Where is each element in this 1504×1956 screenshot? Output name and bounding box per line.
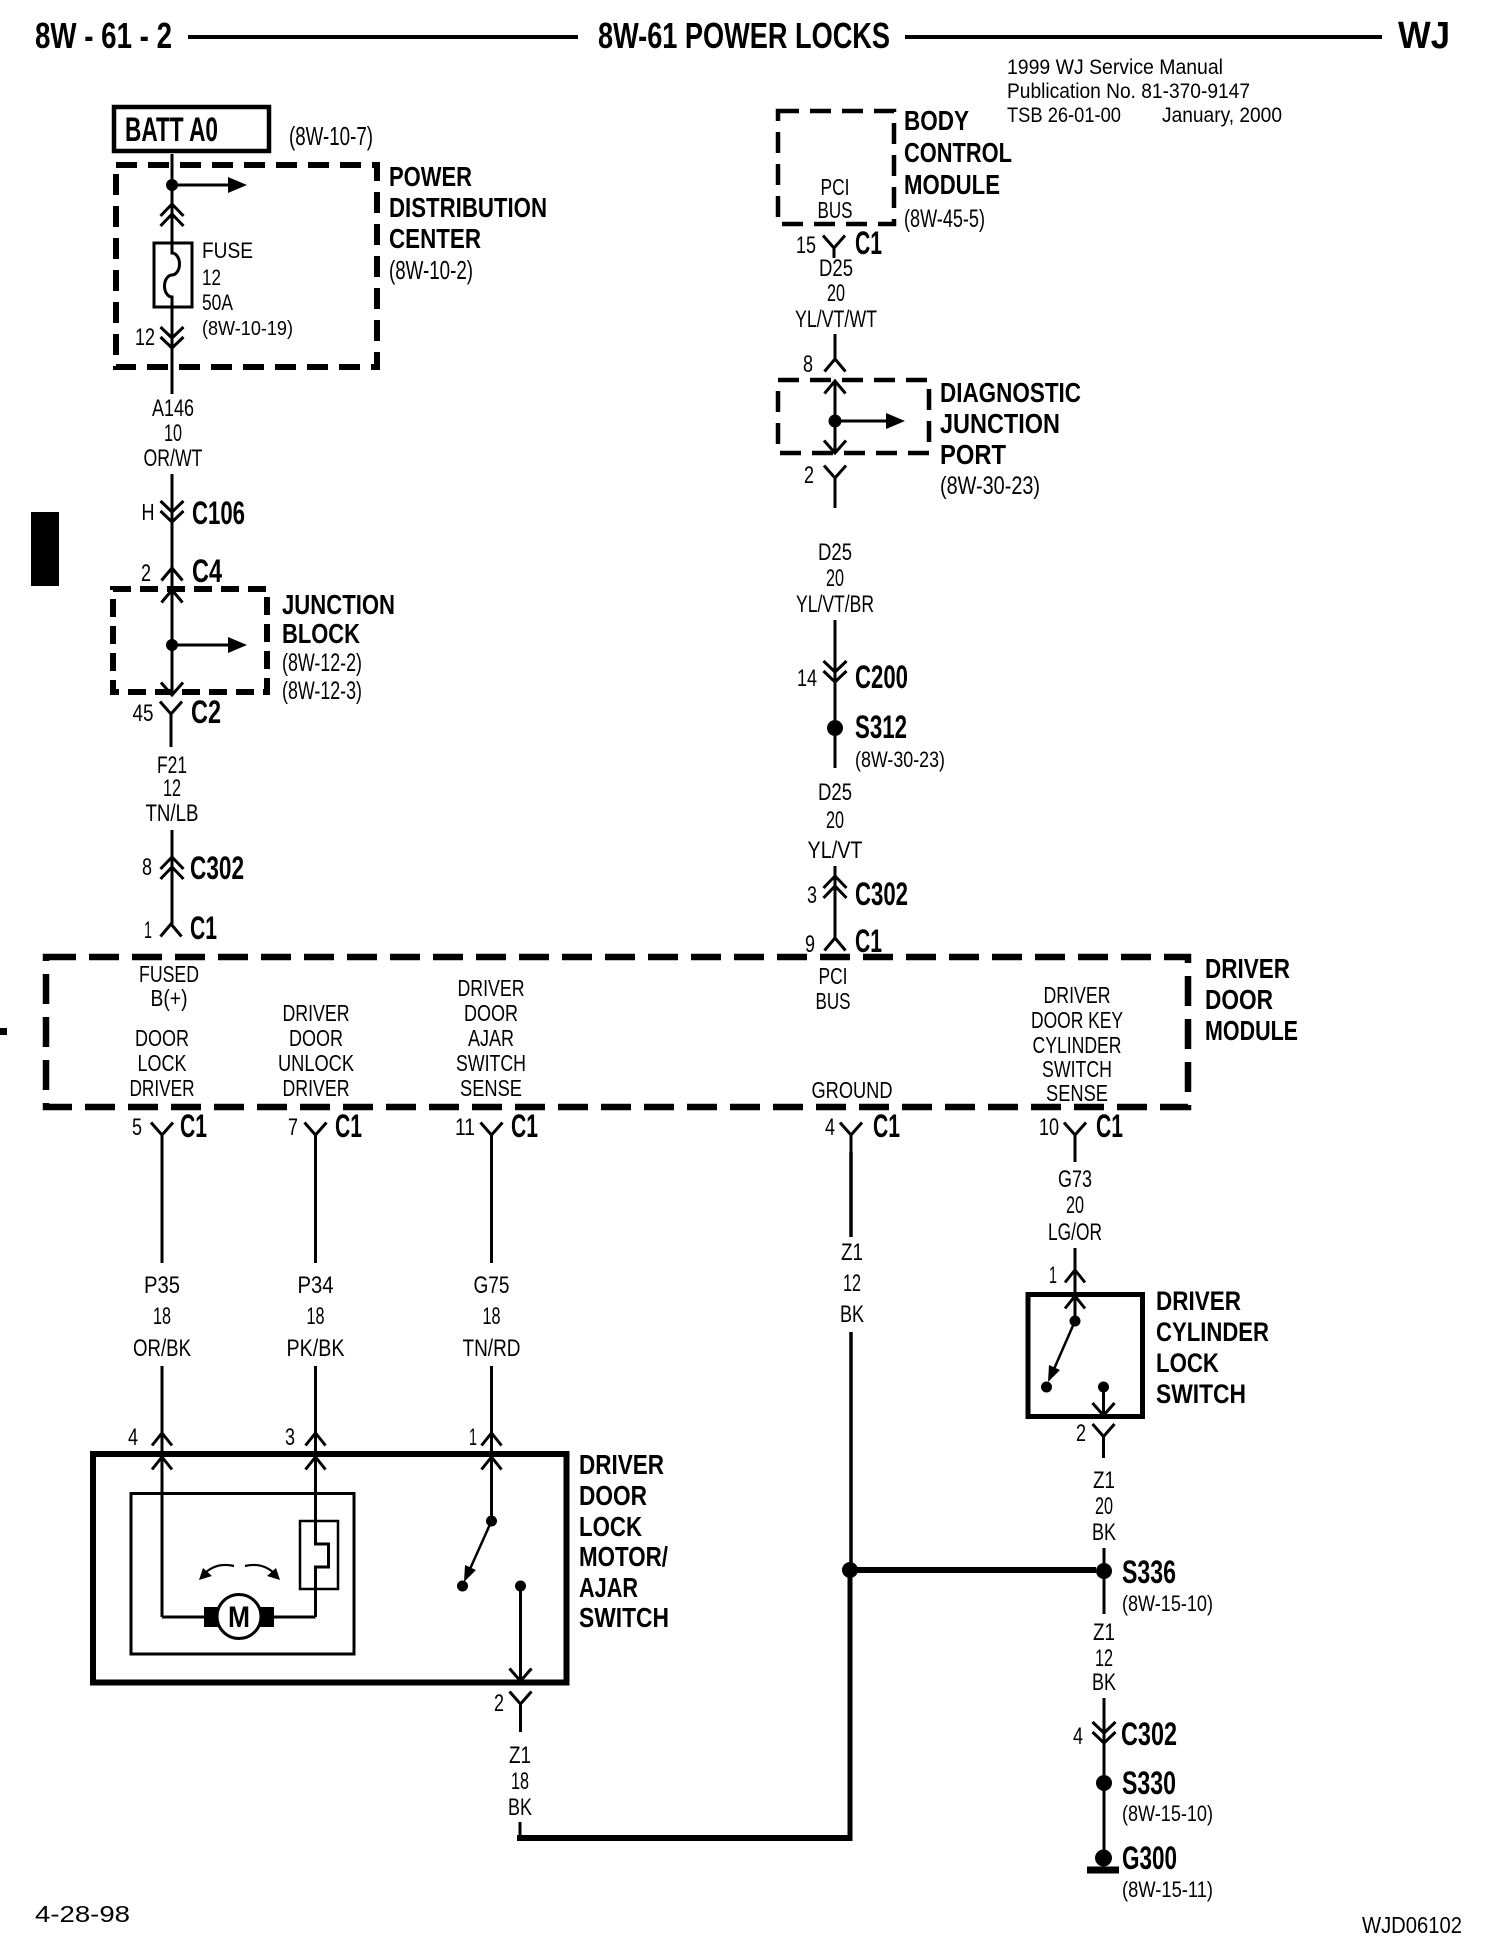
svg-text:(8W-10-7): (8W-10-7) — [289, 121, 373, 151]
svg-text:UNLOCK: UNLOCK — [278, 1050, 355, 1076]
svg-text:C1: C1 — [180, 1108, 207, 1144]
svg-text:8: 8 — [803, 351, 813, 378]
svg-text:C4: C4 — [192, 553, 222, 589]
svg-text:2: 2 — [141, 560, 151, 587]
svg-text:C1: C1 — [190, 910, 217, 946]
ref (8W-10-7) for BATT A0 — [289, 121, 373, 151]
svg-text:11: 11 — [455, 1114, 475, 1141]
svg-text:20: 20 — [1066, 1192, 1084, 1219]
svg-text:G75: G75 — [474, 1272, 510, 1299]
net label: PCI BUS (BCM) — [818, 174, 853, 223]
connector C1 pin 1 (driver door module) — [144, 910, 217, 946]
svg-text:C302: C302 — [190, 850, 244, 886]
module: BODY CONTROL MODULE (dashed box) — [778, 111, 894, 224]
ajar switch: open contact — [457, 1581, 468, 1592]
svg-text:18: 18 — [511, 1768, 529, 1795]
svg-text:D25: D25 — [818, 779, 852, 806]
wire C106 to C4 — [171, 522, 174, 568]
connector C1 pin 7 (DDM) — [288, 1108, 362, 1152]
connector half leaving DJP — [824, 441, 846, 454]
svg-text:C1: C1 — [873, 1108, 900, 1144]
svg-text:14: 14 — [797, 665, 817, 692]
svg-text:C1: C1 — [855, 923, 882, 959]
wire to C200 — [834, 620, 837, 682]
ajar switch: movable blade with arrow — [464, 1521, 492, 1582]
label: BODY CONTROL MODULE (8W-45-5) — [904, 105, 1012, 233]
svg-text:DRIVER: DRIVER — [458, 975, 525, 1001]
svg-text:AJAR: AJAR — [579, 1572, 638, 1603]
wire through junction block — [171, 568, 174, 695]
pin 8 entering DJP — [803, 351, 846, 378]
note: service manual publication block — [1007, 56, 1282, 127]
svg-text:DOOR: DOOR — [289, 1025, 343, 1051]
actuator symbol on P34 branch — [300, 1521, 338, 1589]
svg-text:PCI: PCI — [819, 963, 848, 989]
svg-text:TSB 26-01-00: TSB 26-01-00 — [1007, 104, 1121, 127]
wire to C302 pin 4 — [1103, 1698, 1106, 1775]
svg-text:LOCK: LOCK — [138, 1050, 188, 1076]
ground wire Z1 routing to splice — [517, 1570, 850, 1841]
svg-text:(8W-30-23): (8W-30-23) — [855, 747, 945, 772]
svg-text:C1: C1 — [1096, 1108, 1123, 1144]
svg-text:Z1: Z1 — [1093, 1467, 1115, 1494]
node: ground junction — [842, 1562, 858, 1578]
page header: sheet number — [35, 15, 172, 56]
svg-text:TN/LB: TN/LB — [146, 800, 199, 827]
DDM internal label: PCI BUS — [816, 963, 851, 1014]
svg-text:C200: C200 — [855, 659, 908, 695]
svg-text:5: 5 — [132, 1114, 142, 1141]
svg-text:SWITCH: SWITCH — [456, 1050, 526, 1076]
wire label: D25 20 YL/VT/BR — [796, 539, 874, 618]
label: DIAGNOSTIC JUNCTION PORT (8W-30-23) — [940, 377, 1081, 500]
svg-text:(8W-15-11): (8W-15-11) — [1122, 1877, 1213, 1902]
svg-text:D25: D25 — [818, 539, 852, 566]
svg-text:CYLINDER: CYLINDER — [1156, 1317, 1269, 1347]
cylinder switch pin 2 (below box) — [1076, 1420, 1115, 1458]
motor pin 3 — [285, 1424, 326, 1470]
wire label: Z1 20 BK — [1092, 1467, 1116, 1546]
svg-text:SWITCH: SWITCH — [1042, 1056, 1112, 1082]
svg-text:18: 18 — [153, 1303, 171, 1330]
svg-text:(8W-45-5): (8W-45-5) — [904, 205, 985, 233]
motor assembly inner housing — [131, 1494, 354, 1655]
motor pin 4 — [128, 1424, 172, 1470]
svg-text:(8W-12-3): (8W-12-3) — [282, 677, 362, 705]
binder edge mark — [0, 512, 59, 1035]
connector C1 pin 9 (driver door module) — [805, 923, 882, 959]
connector C302 pin 8 — [142, 850, 244, 886]
svg-text:C302: C302 — [855, 876, 908, 912]
wire to ground G300 — [1103, 1791, 1106, 1851]
svg-text:DOOR: DOOR — [1205, 984, 1273, 1015]
svg-text:S330: S330 — [1122, 1765, 1176, 1801]
svg-text:2: 2 — [494, 1690, 504, 1717]
ajar switch: common contact — [486, 1516, 497, 1527]
svg-text:G73: G73 — [1058, 1166, 1092, 1193]
DDM internal label: DRIVER DOOR KEY CYLINDER SWITCH SENSE — [1031, 982, 1123, 1106]
connector C1 pin 10 (DDM) — [1039, 1108, 1123, 1152]
svg-text:FUSE: FUSE — [202, 238, 253, 263]
svg-text:BK: BK — [508, 1794, 532, 1821]
wire to ground splice node — [849, 1332, 853, 1564]
svg-text:Z1: Z1 — [509, 1742, 531, 1769]
svg-text:MODULE: MODULE — [904, 169, 1000, 200]
wire G75 (pin11 to ajar switch pin 1) upper — [490, 1152, 493, 1263]
wire to S336 — [1103, 1548, 1106, 1563]
svg-text:PK/BK: PK/BK — [287, 1335, 345, 1362]
svg-text:DOOR: DOOR — [135, 1025, 189, 1051]
arrow: PCI bus continuation inside DJP — [835, 413, 905, 429]
label: DRIVER DOOR LOCK MOTOR/AJAR SWITCH — [579, 1449, 669, 1633]
svg-text:8W - 61 - 2: 8W - 61 - 2 — [35, 15, 172, 56]
svg-text:BK: BK — [840, 1301, 864, 1328]
svg-text:G300: G300 — [1122, 1840, 1177, 1876]
svg-text:12: 12 — [202, 265, 221, 290]
svg-text:H: H — [142, 499, 155, 525]
svg-text:BK: BK — [1092, 1519, 1116, 1546]
wire label: Z1 12 BK (below S336) — [1092, 1619, 1116, 1696]
wire label: G73 20 LG/OR — [1048, 1166, 1102, 1246]
connector half entering DJP — [825, 381, 846, 394]
splice S336 — [1096, 1554, 1213, 1616]
svg-text:(8W-10-19): (8W-10-19) — [202, 317, 293, 340]
node: DJP splice — [829, 415, 842, 428]
wire label: D25 20 YL/VT/WT — [795, 255, 877, 333]
svg-text:15: 15 — [796, 232, 816, 259]
wire below S312 — [834, 736, 837, 768]
svg-text:1: 1 — [1049, 1262, 1057, 1289]
svg-text:S312: S312 — [855, 709, 907, 745]
wire P34 lower with actuator jog — [316, 1366, 329, 1617]
footer: drawing number WJD06102 — [1362, 1912, 1462, 1938]
svg-text:BATT A0: BATT A0 — [125, 111, 218, 149]
svg-text:M: M — [228, 1601, 250, 1634]
wire G75 lower — [490, 1366, 493, 1521]
svg-text:C106: C106 — [192, 495, 245, 531]
wire label: A146 10 OR/WT — [144, 395, 203, 472]
svg-text:LOCK: LOCK — [579, 1511, 642, 1542]
arrow: bus continuation inside PDC — [172, 177, 247, 193]
module: POWER DISTRIBUTION CENTER (dashed box) — [116, 165, 377, 367]
svg-text:DISTRIBUTION: DISTRIBUTION — [389, 192, 547, 223]
wire to C302 (right) — [834, 866, 837, 938]
svg-text:20: 20 — [827, 280, 845, 307]
svg-text:B(+): B(+) — [151, 985, 188, 1011]
svg-text:YL/VT/BR: YL/VT/BR — [796, 591, 874, 618]
wire label: Z1 18 BK — [508, 1742, 532, 1821]
svg-text:12: 12 — [843, 1270, 861, 1297]
cylinder switch internals — [1041, 1296, 1115, 1416]
svg-text:YL/VT/WT: YL/VT/WT — [795, 306, 877, 333]
svg-text:12: 12 — [163, 775, 181, 802]
svg-text:BUS: BUS — [818, 197, 853, 223]
wire label: P35 18 OR/BK — [133, 1272, 191, 1362]
svg-text:1: 1 — [469, 1424, 477, 1451]
page header: section title 8W-61 POWER LOCKS — [598, 15, 890, 56]
motor rotation arrows — [199, 1565, 280, 1580]
ajar switch pin 1 — [469, 1424, 502, 1470]
svg-text:3: 3 — [285, 1424, 295, 1451]
svg-text:LG/OR: LG/OR — [1048, 1219, 1102, 1246]
svg-text:8: 8 — [142, 854, 152, 881]
svg-text:OR/WT: OR/WT — [144, 445, 203, 472]
component box: DRIVER CYLINDER LOCK SWITCH — [1028, 1295, 1143, 1417]
svg-text:(8W-15-10): (8W-15-10) — [1122, 1591, 1213, 1616]
node: JB splice — [166, 639, 178, 651]
connector C200 pin 14 — [797, 659, 908, 695]
svg-text:DRIVER: DRIVER — [1044, 982, 1111, 1008]
svg-text:(8W-12-2): (8W-12-2) — [282, 649, 362, 677]
wire P34 (pin7 to motor pin 3) upper — [314, 1152, 317, 1263]
svg-text:20: 20 — [1095, 1493, 1113, 1520]
connector C1 pin 5 (DDM) — [132, 1108, 207, 1152]
svg-text:BUS: BUS — [816, 988, 851, 1014]
svg-text:DRIVER: DRIVER — [283, 1075, 350, 1101]
svg-text:S336: S336 — [1122, 1554, 1176, 1590]
svg-text:2: 2 — [804, 462, 814, 489]
svg-text:12: 12 — [135, 324, 155, 351]
connector C4 pin 2 — [141, 553, 222, 589]
svg-text:January, 2000: January, 2000 — [1162, 104, 1282, 127]
svg-text:BODY: BODY — [904, 105, 969, 136]
ajar switch: output contact pin 2 — [510, 1581, 532, 1682]
splice S330 — [1096, 1765, 1213, 1826]
header rule right — [905, 35, 1382, 39]
svg-text:CENTER: CENTER — [389, 223, 481, 254]
svg-text:(8W-30-23): (8W-30-23) — [940, 472, 1040, 500]
svg-text:BLOCK: BLOCK — [282, 618, 360, 649]
DDM internal label: FUSED B(+) DOOR LOCK DRIVER — [130, 961, 200, 1101]
DDM internal label: GROUND — [812, 1077, 893, 1103]
svg-text:SENSE: SENSE — [1046, 1080, 1108, 1106]
wire Z1 12 BK from DDM ground pin — [849, 1152, 853, 1237]
connector C1 pin 11 (DDM) — [455, 1108, 538, 1152]
svg-text:(8W-10-2): (8W-10-2) — [389, 255, 473, 285]
svg-text:D25: D25 — [819, 255, 853, 282]
page header: WJ — [1398, 15, 1450, 57]
svg-text:P35: P35 — [144, 1272, 180, 1299]
svg-text:DRIVER: DRIVER — [283, 1000, 350, 1026]
svg-text:20: 20 — [826, 565, 844, 592]
svg-text:GROUND: GROUND — [812, 1077, 893, 1103]
svg-text:50A: 50A — [202, 290, 233, 315]
ajar switch pin 2 (below box) — [494, 1690, 532, 1732]
svg-text:A146: A146 — [152, 395, 194, 422]
svg-text:DOOR: DOOR — [579, 1480, 647, 1511]
connector pin 2 (DJP) — [804, 462, 846, 489]
svg-text:DRIVER: DRIVER — [1205, 953, 1290, 984]
svg-text:BK: BK — [1092, 1669, 1116, 1696]
svg-text:10: 10 — [164, 420, 182, 447]
svg-text:WJ: WJ — [1398, 15, 1450, 57]
svg-text:PORT: PORT — [940, 439, 1006, 470]
wire label: F21 12 TN/LB — [146, 752, 199, 827]
wire label: G75 18 TN/RD — [463, 1272, 521, 1362]
connector C106 pin H — [142, 495, 246, 531]
wire to C302 — [171, 830, 174, 924]
wire through DJP — [834, 381, 837, 453]
wire: BATT A0 into PDC — [171, 154, 174, 242]
splice S312 — [827, 709, 945, 772]
svg-text:TN/RD: TN/RD — [463, 1335, 521, 1362]
svg-text:DOOR: DOOR — [464, 1000, 518, 1026]
svg-text:CONTROL: CONTROL — [904, 137, 1012, 168]
svg-text:DRIVER: DRIVER — [1156, 1286, 1241, 1316]
label: FUSE 12 50A (8W-10-19) — [202, 238, 293, 340]
wire P35 lower — [161, 1366, 164, 1617]
connector half leaving JB (chevron down) — [161, 683, 183, 696]
svg-text:C1: C1 — [855, 225, 882, 261]
wire D25 to C200 — [834, 478, 837, 508]
connector half (double chevron down) at PDC output — [161, 327, 184, 348]
label: POWER DISTRIBUTION CENTER (8W-10-2) — [389, 161, 547, 285]
connector C1 pin 15 (BCM) — [796, 225, 882, 261]
wire label: D25 20 YL/VT — [808, 779, 863, 864]
svg-text:OR/BK: OR/BK — [133, 1335, 191, 1362]
svg-text:DRIVER: DRIVER — [130, 1075, 195, 1101]
svg-text:WJD06102: WJD06102 — [1362, 1912, 1462, 1938]
connector C302 pin 4 — [1073, 1716, 1177, 1752]
wire below S336 — [1103, 1579, 1106, 1614]
svg-text:C2: C2 — [191, 694, 221, 730]
svg-text:P34: P34 — [298, 1272, 334, 1299]
svg-text:4: 4 — [825, 1114, 835, 1141]
svg-text:Z1: Z1 — [841, 1239, 863, 1266]
motor M with brushes — [162, 1595, 316, 1639]
svg-text:Z1: Z1 — [1093, 1619, 1115, 1646]
svg-text:4-28-98: 4-28-98 — [35, 1901, 130, 1927]
svg-text:10: 10 — [1039, 1114, 1059, 1141]
svg-text:C302: C302 — [1121, 1716, 1177, 1752]
label: JUNCTION BLOCK (8W-12-2) (8W-12-3) — [282, 589, 395, 705]
svg-text:POWER: POWER — [389, 161, 472, 192]
svg-text:DRIVER: DRIVER — [579, 1449, 664, 1480]
wire C200 to S312 — [834, 682, 837, 720]
module: DIAGNOSTIC JUNCTION PORT (dashed box) — [778, 380, 929, 453]
node: PDC splice — [166, 179, 178, 191]
wire to diagnostic junction port — [834, 334, 837, 359]
connector half (double chevron up) above fuse — [161, 204, 184, 226]
connector C302 pin 3 — [807, 876, 908, 912]
svg-text:C1: C1 — [335, 1108, 362, 1144]
svg-text:JUNCTION: JUNCTION — [940, 408, 1060, 439]
ground G300 — [1087, 1840, 1213, 1902]
module: JUNCTION BLOCK (dashed box) — [113, 589, 267, 692]
DDM internal label: DRIVER DOOR UNLOCK DRIVER — [278, 1000, 355, 1101]
wire segment below PDC — [171, 309, 174, 394]
arrow: bus continuation inside JB — [172, 637, 247, 653]
svg-text:18: 18 — [307, 1303, 325, 1330]
fuse 12 50A (element + box) — [154, 242, 192, 309]
cylinder switch pin 1 — [1049, 1262, 1085, 1289]
svg-text:CYLINDER: CYLINDER — [1033, 1032, 1122, 1058]
svg-text:7: 7 — [288, 1114, 298, 1141]
svg-text:(8W-15-10): (8W-15-10) — [1122, 1801, 1213, 1826]
svg-text:DOOR KEY: DOOR KEY — [1031, 1007, 1123, 1033]
svg-text:C1: C1 — [511, 1108, 538, 1144]
svg-text:45: 45 — [133, 700, 154, 727]
svg-text:FUSED: FUSED — [139, 961, 199, 987]
svg-text:SENSE: SENSE — [460, 1075, 522, 1101]
svg-text:SWITCH: SWITCH — [1156, 1379, 1246, 1409]
battery feed box BATT A0 — [114, 107, 269, 151]
svg-text:4: 4 — [128, 1424, 138, 1451]
svg-text:LOCK: LOCK — [1156, 1348, 1219, 1378]
svg-text:MOTOR/: MOTOR/ — [579, 1541, 668, 1572]
label: DRIVER CYLINDER LOCK SWITCH — [1156, 1286, 1269, 1409]
svg-text:1999 WJ Service Manual: 1999 WJ Service Manual — [1007, 56, 1223, 79]
wire label: Z1 12 BK — [840, 1239, 864, 1328]
footer: date — [35, 1901, 130, 1927]
svg-text:YL/VT: YL/VT — [808, 837, 863, 864]
label: DRIVER DOOR MODULE — [1205, 953, 1298, 1046]
svg-text:MODULE: MODULE — [1205, 1015, 1298, 1046]
svg-text:AJAR: AJAR — [468, 1025, 514, 1051]
svg-text:1: 1 — [144, 917, 152, 944]
svg-text:20: 20 — [826, 807, 844, 834]
svg-text:2: 2 — [1076, 1420, 1086, 1447]
connector half entering JB — [162, 590, 183, 603]
svg-text:Publication No. 81-370-9147: Publication No. 81-370-9147 — [1007, 80, 1250, 103]
svg-text:DIAGNOSTIC: DIAGNOSTIC — [940, 377, 1081, 408]
wire F21 12 TN/LB — [170, 714, 173, 747]
wire to C106 — [171, 474, 174, 522]
wire label: P34 18 PK/BK — [287, 1272, 345, 1362]
svg-text:8W-61 POWER LOCKS: 8W-61 POWER LOCKS — [598, 15, 890, 56]
connector C1 pin 4 (DDM) — [825, 1108, 900, 1152]
header rule left — [188, 35, 578, 39]
svg-text:SWITCH: SWITCH — [579, 1602, 669, 1633]
wire G73 (pin10 to cylinder lock switch) — [1074, 1152, 1077, 1162]
wire to cylinder switch pin 1 — [1074, 1248, 1077, 1296]
svg-text:12: 12 — [1095, 1645, 1113, 1672]
svg-text:4: 4 — [1073, 1723, 1083, 1750]
svg-text:3: 3 — [807, 882, 817, 909]
svg-text:JUNCTION: JUNCTION — [282, 589, 395, 620]
wire: node to S336 — [850, 1567, 1096, 1573]
DDM internal label: DRIVER DOOR AJAR SWITCH SENSE — [456, 975, 526, 1101]
pin 12 of PDC — [135, 324, 155, 351]
svg-text:18: 18 — [483, 1303, 501, 1330]
wire P35 (pin5 to motor pin 4) upper — [161, 1152, 164, 1263]
component box: DRIVER DOOR LOCK MOTOR / AJAR SWITCH — [93, 1454, 567, 1683]
module: DRIVER DOOR MODULE (dashed box) — [46, 957, 1188, 1107]
connector C2 pin 45 — [133, 694, 222, 730]
